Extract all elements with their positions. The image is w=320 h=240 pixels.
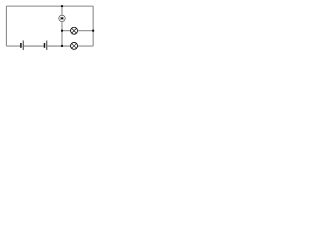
wire top junction to motor <box>61 6 63 15</box>
wire left <box>5 6 7 46</box>
battery cell B1 short thick plate <box>20 43 22 48</box>
lamp L1 cross <box>72 28 77 33</box>
wire right <box>92 6 94 46</box>
wire lamp L1 branch right <box>78 30 94 32</box>
wire bottom left segment <box>6 45 20 47</box>
wire motor to bottom junction <box>61 22 63 46</box>
lamp L2 cross <box>72 43 77 48</box>
wire between battery cells <box>24 45 44 47</box>
battery cell B2 short thick plate <box>44 43 46 48</box>
motor M1 circle <box>59 15 65 21</box>
motor M1 letter <box>61 17 63 20</box>
node junction top <box>61 5 63 7</box>
lamp L2 circle <box>71 42 78 49</box>
node junction bottom <box>61 45 63 47</box>
node junction right <box>92 30 94 32</box>
battery cell B1 long thin plate <box>22 41 24 51</box>
node junction mid <box>61 30 63 32</box>
wire lamp L1 branch left <box>62 30 71 32</box>
wire top <box>6 5 93 7</box>
battery cell B2 long thin plate <box>46 41 48 51</box>
wire battery to bottom junction and lamp L2 <box>47 45 70 47</box>
lamp L1 circle <box>71 27 78 34</box>
wire lamp L2 to right corner <box>78 45 94 47</box>
